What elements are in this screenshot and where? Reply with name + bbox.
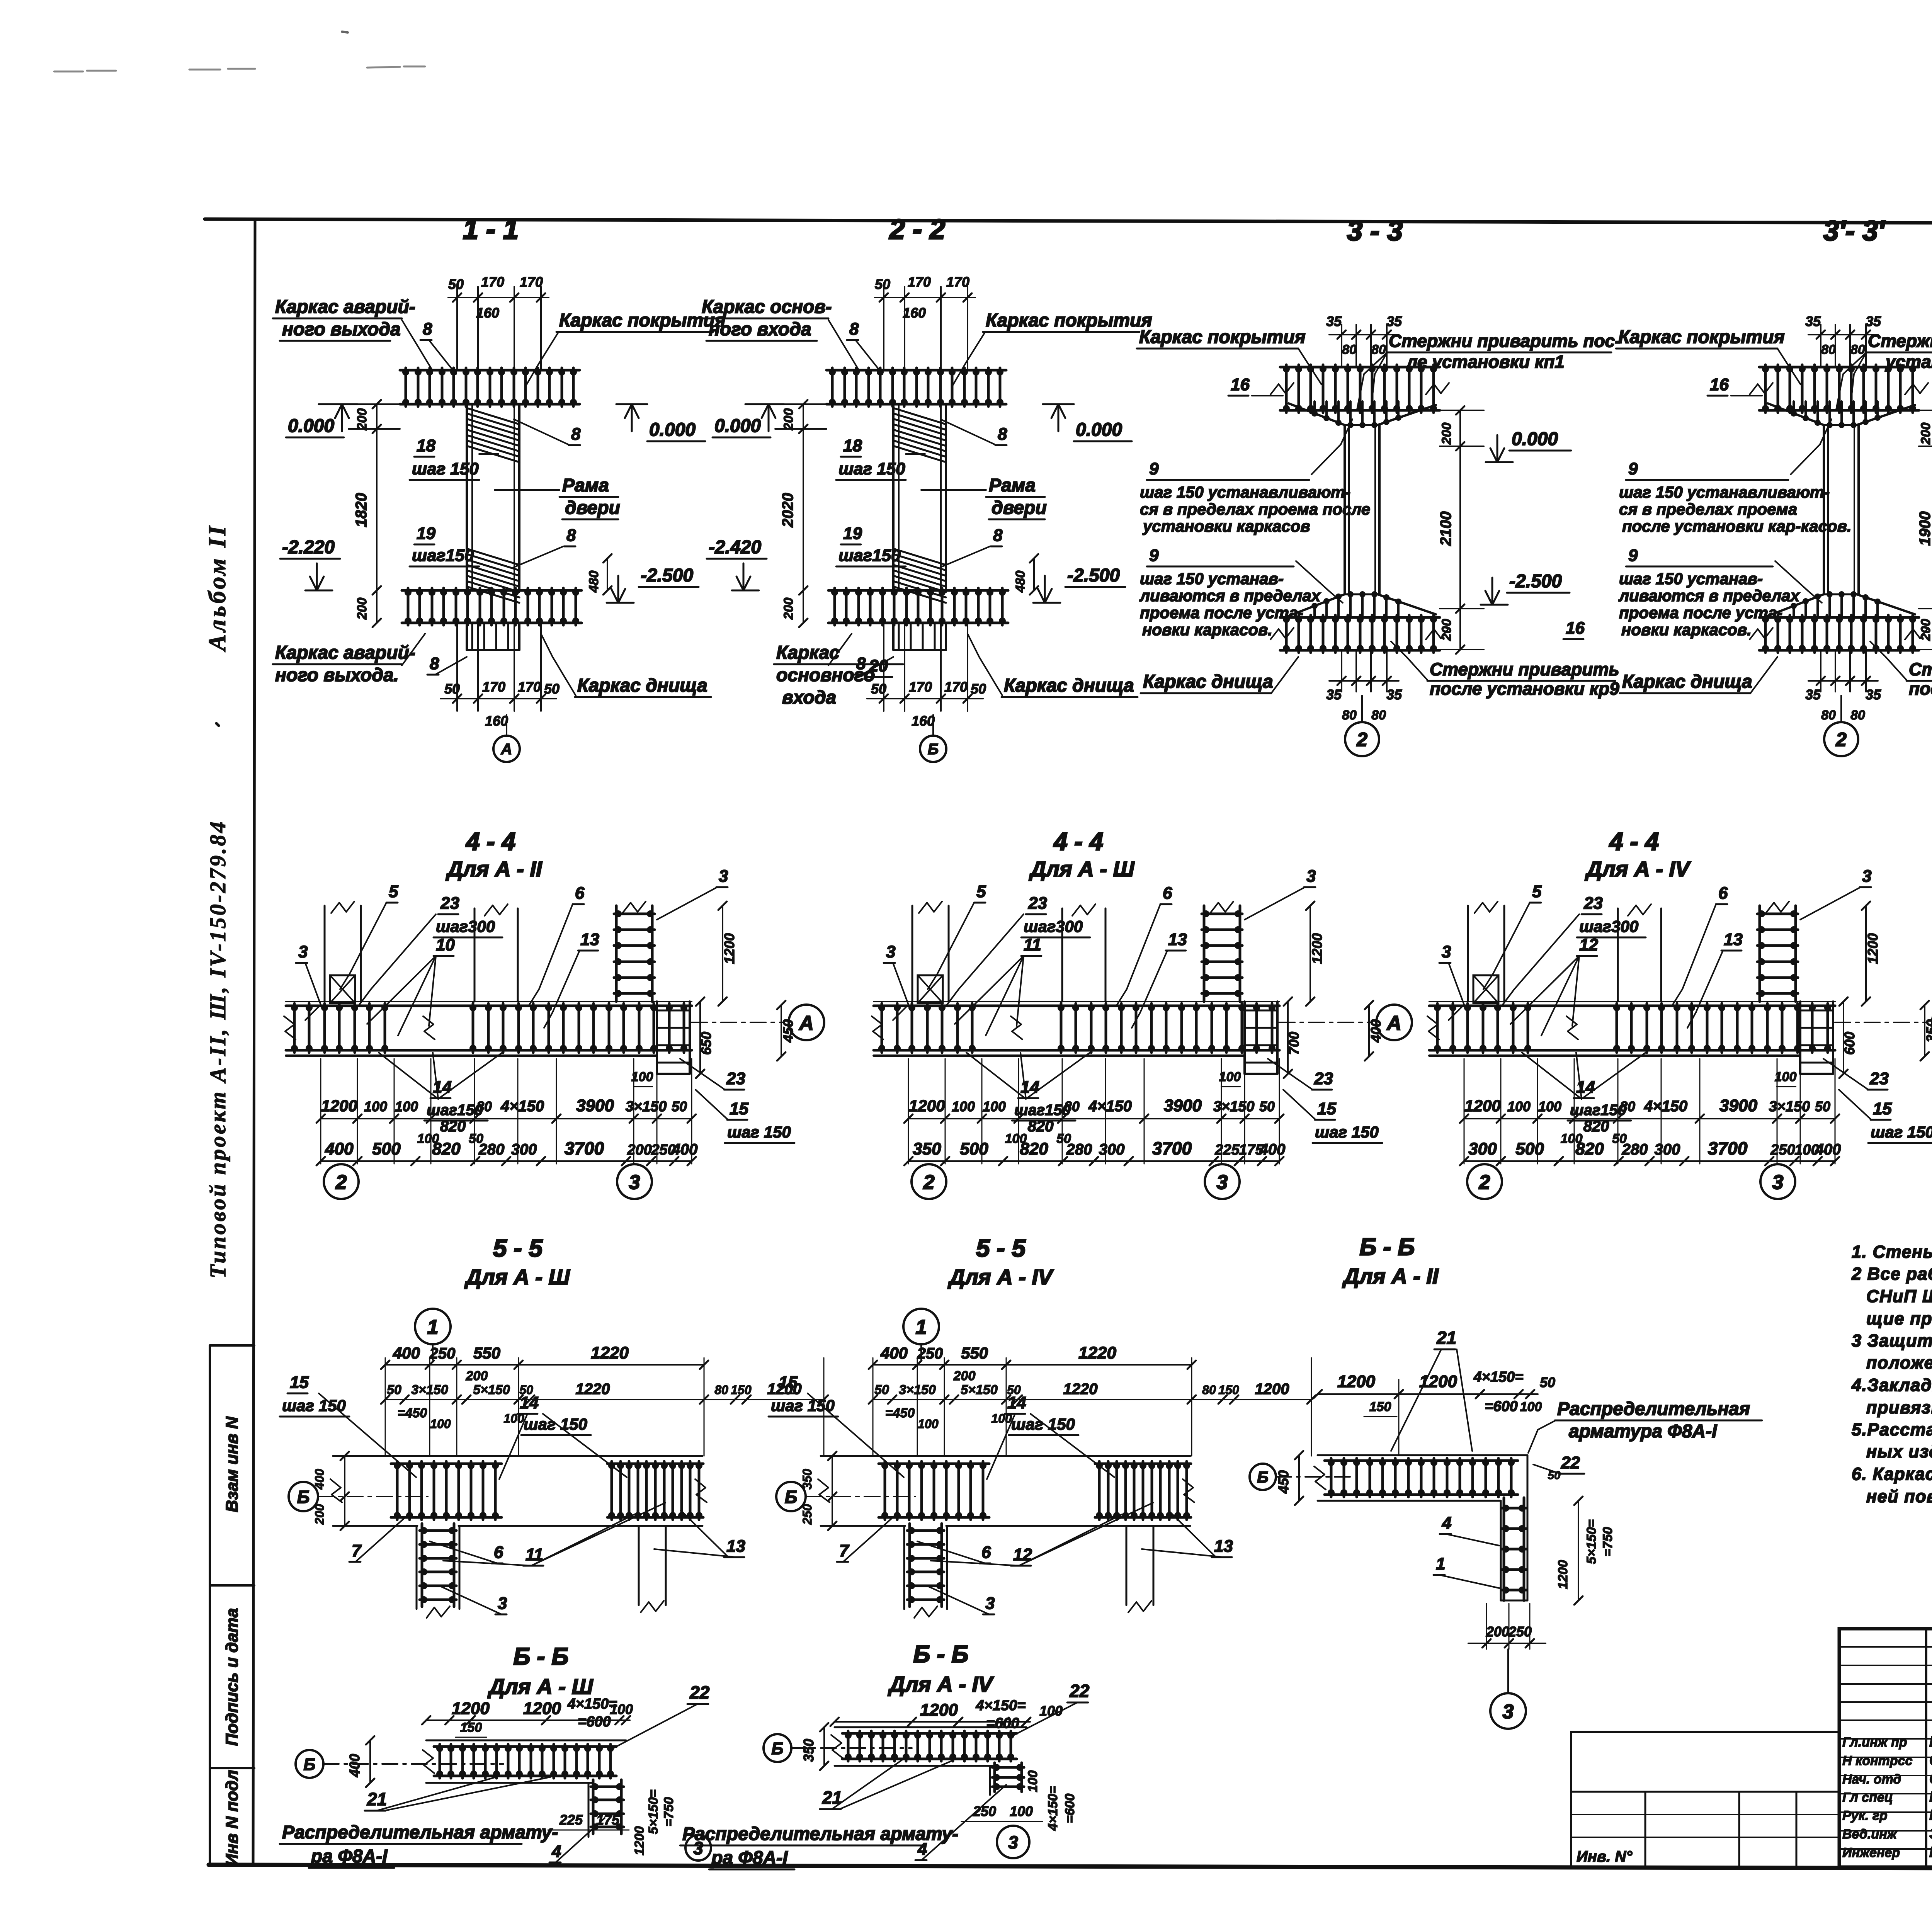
svg-text:400: 400	[880, 1344, 908, 1362]
svg-text:новки каркасов.: новки каркасов.	[1621, 621, 1752, 639]
svg-text:Рама: Рама	[989, 475, 1036, 496]
svg-text:250: 250	[429, 1345, 456, 1362]
svg-text:основного: основного	[776, 665, 875, 685]
svg-text:50: 50	[1540, 1374, 1555, 1390]
svg-text:Стержни приварить: Стержни приварить	[1430, 659, 1619, 679]
svg-text:13: 13	[1724, 930, 1743, 949]
svg-text:1820: 1820	[353, 493, 370, 527]
svg-text:Для А - IV: Для А - IV	[948, 1265, 1054, 1289]
svg-text:250: 250	[917, 1345, 943, 1362]
svg-text:2: 2	[1835, 729, 1847, 750]
svg-text:ных изделий см. КЖ- 2.: ных изделий см. КЖ- 2.	[1866, 1442, 1932, 1461]
svg-text:после установки кар-касов.: после установки кар-касов.	[1622, 517, 1852, 535]
svg-text:150: 150	[731, 1383, 752, 1397]
svg-text:Каркас покрытия: Каркас покрытия	[986, 310, 1152, 331]
svg-text:400: 400	[672, 1141, 698, 1158]
svg-text:280: 280	[1622, 1141, 1648, 1158]
svg-text:Гл.инж пр: Гл.инж пр	[1842, 1735, 1907, 1750]
svg-text:Распределительная: Распределительная	[1557, 1399, 1750, 1419]
svg-text:1900: 1900	[1917, 512, 1932, 546]
svg-text:ливаются в пределах: ливаются в пределах	[1139, 587, 1321, 605]
svg-text:1200: 1200	[721, 933, 737, 964]
svg-text:Б: Б	[297, 1487, 310, 1507]
svg-text:3: 3	[1217, 1171, 1228, 1194]
svg-text:225: 225	[1214, 1142, 1240, 1158]
svg-text:600: 600	[1842, 1032, 1857, 1055]
svg-text:3700: 3700	[1152, 1138, 1192, 1158]
svg-text:Вед.инж: Вед.инж	[1842, 1827, 1898, 1842]
svg-text:=600: =600	[1063, 1794, 1077, 1823]
svg-text:Б: Б	[928, 741, 939, 758]
svg-text:Распределительная армату-: Распределительная армату-	[682, 1824, 958, 1844]
svg-text:5.Расстановку каркасов и спе: 5.Расстановку каркасов и спецификацию см…	[1852, 1420, 1932, 1439]
svg-text:6: 6	[494, 1543, 503, 1562]
svg-text:200: 200	[1486, 1624, 1509, 1639]
svg-text:ного входа: ного входа	[709, 319, 811, 340]
svg-text:1200: 1200	[321, 1097, 357, 1115]
svg-text:1: 1	[916, 1316, 927, 1338]
svg-text:Для А - II: Для А - II	[1342, 1264, 1439, 1288]
svg-text:50: 50	[875, 276, 890, 292]
svg-text:Каркас днища: Каркас днища	[577, 675, 707, 696]
svg-text:10: 10	[436, 935, 455, 954]
svg-text:80: 80	[1342, 342, 1357, 357]
svg-text:шаг150: шаг150	[1570, 1102, 1626, 1119]
svg-text:шаг300: шаг300	[1024, 917, 1083, 935]
svg-text:400: 400	[393, 1344, 420, 1362]
svg-text:4×150: 4×150	[500, 1098, 544, 1115]
svg-text:шаг 150: шаг 150	[1871, 1123, 1932, 1141]
svg-text:3: 3	[985, 1594, 995, 1613]
svg-text:шаг 150 устанав-: шаг 150 устанав-	[1140, 570, 1284, 588]
svg-text:1200: 1200	[1309, 933, 1325, 964]
svg-text:3 Защитный слой бетона до низ: 3 Защитный слой бетона до низа рабочей а…	[1852, 1331, 1932, 1350]
svg-text:18: 18	[843, 436, 862, 455]
svg-text:400: 400	[313, 1469, 327, 1490]
svg-text:после установки кр9: после установки кр9	[1430, 679, 1619, 699]
svg-text:3700: 3700	[565, 1138, 604, 1158]
svg-text:50: 50	[874, 1383, 889, 1397]
svg-text:2100: 2100	[1437, 512, 1454, 546]
svg-text:СНиП Ш-15-76 „Бетонные и желез: СНиП Ш-15-76 „Бетонные и железобетонные …	[1866, 1286, 1932, 1306]
svg-text:шаг 150: шаг 150	[412, 459, 479, 478]
svg-text:100: 100	[1775, 1070, 1797, 1084]
svg-text:3: 3	[1772, 1171, 1784, 1194]
svg-text:80: 80	[714, 1383, 728, 1397]
svg-text:35: 35	[1866, 313, 1881, 329]
svg-text:шаг 150: шаг 150	[1315, 1123, 1379, 1141]
svg-text:35: 35	[1866, 687, 1881, 702]
svg-text:2: 2	[923, 1171, 935, 1194]
svg-text:=450: =450	[398, 1406, 427, 1420]
svg-text:100: 100	[631, 1070, 653, 1084]
svg-text:проема после уста-: проема после уста-	[1140, 604, 1303, 622]
svg-text:550: 550	[961, 1344, 988, 1362]
svg-text:Каркас: Каркас	[776, 643, 840, 663]
svg-text:А: А	[501, 741, 512, 758]
svg-text:3: 3	[1008, 1832, 1018, 1852]
svg-text:3: 3	[1306, 867, 1316, 886]
svg-text:16: 16	[1566, 619, 1585, 638]
svg-text:1: 1	[427, 1316, 439, 1338]
svg-text:3: 3	[498, 1594, 507, 1613]
svg-text:50: 50	[1815, 1099, 1830, 1114]
svg-text:8: 8	[571, 425, 581, 444]
svg-text:2 Все работы по бетонированию: 2 Все работы по бетонированию осуществля…	[1851, 1264, 1932, 1284]
svg-text:Для А - II: Для А - II	[446, 857, 543, 881]
svg-text:400: 400	[325, 1139, 354, 1158]
svg-text:4.Закладные детали и отверст: 4.Закладные детали и отверстия условно н…	[1851, 1375, 1932, 1395]
svg-text:Для А - IV: Для А - IV	[1585, 857, 1692, 881]
svg-text:300: 300	[1655, 1141, 1680, 1158]
svg-text:Б: Б	[785, 1487, 798, 1507]
svg-text:35: 35	[1386, 313, 1402, 329]
svg-text:2020: 2020	[779, 493, 796, 528]
svg-text:установки кп1: установки кп1	[1885, 352, 1932, 372]
svg-text:170: 170	[908, 274, 931, 290]
svg-text:14: 14	[520, 1393, 539, 1412]
svg-text:Нач. отд: Нач. отд	[1842, 1772, 1901, 1787]
svg-text:6. Каркасы поз. 1 и поз. 1: 6. Каркасы поз. 1 и поз. 13 устанавливаю…	[1852, 1464, 1932, 1484]
svg-text:Б - Б: Б - Б	[1360, 1234, 1415, 1260]
svg-text:Рук. гр: Рук. гр	[1842, 1808, 1888, 1823]
svg-text:Одиноков: Одиноков	[1929, 1771, 1932, 1787]
svg-text:350: 350	[913, 1139, 941, 1158]
svg-text:шаг300: шаг300	[1579, 917, 1638, 935]
svg-text:Б - Б: Б - Б	[913, 1641, 969, 1668]
svg-text:4 - 4: 4 - 4	[1053, 828, 1103, 855]
svg-text:8: 8	[993, 526, 1003, 545]
svg-text:5×150=: 5×150=	[646, 1789, 661, 1834]
svg-text:19: 19	[417, 524, 435, 543]
svg-text:1200: 1200	[1865, 933, 1881, 964]
svg-text:6: 6	[981, 1543, 991, 1562]
svg-text:13: 13	[1168, 930, 1187, 949]
svg-text:100: 100	[1010, 1803, 1033, 1819]
svg-text:5 - 5: 5 - 5	[976, 1234, 1026, 1262]
svg-text:Каркас покрытия: Каркас покрытия	[559, 310, 726, 331]
svg-text:170: 170	[518, 679, 541, 695]
svg-text:0.000: 0.000	[649, 420, 696, 440]
svg-text:Каркас аварий-: Каркас аварий-	[275, 643, 415, 663]
svg-text:250: 250	[1508, 1624, 1532, 1639]
svg-text:3: 3	[719, 867, 728, 886]
svg-text:Инженер: Инженер	[1842, 1845, 1900, 1860]
svg-text:175: 175	[596, 1812, 620, 1828]
svg-text:4×150: 4×150	[1644, 1098, 1687, 1115]
svg-text:150: 150	[1218, 1383, 1239, 1397]
svg-text:21: 21	[1436, 1328, 1456, 1348]
svg-text:50: 50	[544, 681, 560, 697]
svg-text:5: 5	[389, 882, 398, 901]
svg-text:80: 80	[1342, 708, 1357, 723]
svg-text:1200: 1200	[632, 1826, 647, 1855]
svg-text:3700: 3700	[1708, 1138, 1748, 1158]
svg-text:Взам инв N: Взам инв N	[223, 1416, 241, 1512]
svg-text:820: 820	[1575, 1139, 1604, 1158]
svg-text:4×150=: 4×150=	[976, 1697, 1026, 1714]
svg-text:Кубышкина: Кубышкина	[1929, 1844, 1932, 1861]
svg-text:300: 300	[1099, 1141, 1125, 1158]
svg-text:3: 3	[886, 942, 895, 961]
svg-text:50: 50	[387, 1383, 401, 1397]
svg-text:9: 9	[1628, 459, 1638, 478]
svg-text:9: 9	[1149, 546, 1159, 565]
svg-text:500: 500	[1515, 1139, 1544, 1158]
svg-text:80: 80	[1202, 1383, 1216, 1397]
svg-text:100: 100	[430, 1417, 451, 1431]
svg-text:6: 6	[575, 884, 585, 903]
svg-text:2: 2	[1356, 729, 1367, 750]
svg-text:-2.500: -2.500	[641, 565, 693, 586]
svg-text:11: 11	[1024, 935, 1041, 954]
svg-text:=600: =600	[986, 1715, 1019, 1731]
svg-text:50: 50	[1548, 1469, 1561, 1482]
svg-text:шаг300: шаг300	[436, 917, 495, 935]
svg-text:8: 8	[849, 320, 859, 338]
svg-text:170: 170	[944, 679, 968, 695]
svg-text:Васильев: Васильев	[1929, 1734, 1932, 1750]
svg-text:300: 300	[1468, 1139, 1497, 1158]
svg-text:установки каркасов: установки каркасов	[1142, 517, 1310, 535]
svg-text:шаг 150: шаг 150	[282, 1396, 346, 1415]
svg-text:-2.500: -2.500	[1067, 565, 1120, 586]
svg-text:шаг 150: шаг 150	[771, 1396, 835, 1415]
svg-text:Для А - Ш: Для А - Ш	[488, 1674, 594, 1699]
svg-text:23: 23	[440, 894, 459, 913]
svg-text:100: 100	[1026, 1770, 1040, 1793]
svg-text:привязку их см. КЖ-12 , КЖ-1: привязку их см. КЖ-12 , КЖ-13.	[1866, 1398, 1932, 1417]
svg-text:ра Ф8А-I: ра Ф8А-I	[711, 1848, 788, 1868]
svg-text:480: 480	[1013, 571, 1028, 593]
svg-text:5 - 5: 5 - 5	[493, 1234, 543, 1262]
svg-text:100: 100	[610, 1701, 633, 1717]
svg-text:Каркас днища: Каркас днища	[1004, 675, 1134, 696]
svg-text:ся в пределах проема: ся в пределах проема	[1619, 500, 1797, 518]
svg-text:0.000: 0.000	[288, 416, 334, 436]
svg-text:15: 15	[1317, 1099, 1336, 1118]
svg-text:после установки КР9: после установки КР9	[1909, 679, 1932, 699]
svg-text:200: 200	[781, 598, 796, 620]
svg-text:160: 160	[476, 305, 499, 321]
svg-text:820: 820	[1020, 1139, 1048, 1158]
svg-text:1200: 1200	[920, 1701, 958, 1719]
svg-text:160: 160	[912, 713, 935, 729]
svg-text:Подпись и дата: Подпись и дата	[223, 1608, 241, 1746]
svg-text:100: 100	[395, 1099, 418, 1114]
svg-text:100: 100	[918, 1417, 939, 1431]
svg-text:1200: 1200	[909, 1097, 945, 1115]
svg-text:23: 23	[1583, 894, 1603, 913]
svg-text:3900: 3900	[1719, 1096, 1757, 1115]
svg-text:Рама: Рама	[562, 475, 609, 496]
svg-text:200: 200	[1439, 619, 1454, 641]
svg-text:шаг 150 устанавливают-: шаг 150 устанавливают-	[1619, 483, 1830, 501]
svg-text:170: 170	[909, 679, 932, 695]
svg-text:1200: 1200	[1464, 1097, 1500, 1115]
svg-text:250: 250	[1770, 1142, 1795, 1158]
svg-text:22: 22	[1561, 1453, 1580, 1472]
svg-text:22: 22	[689, 1682, 710, 1702]
svg-text:20: 20	[869, 656, 888, 675]
svg-text:Распределительная армату-: Распределительная армату-	[282, 1822, 558, 1843]
svg-text:Зубова: Зубова	[1929, 1826, 1932, 1842]
svg-text:200: 200	[1918, 619, 1932, 641]
svg-text:14: 14	[1007, 1393, 1026, 1412]
svg-text:170: 170	[520, 274, 543, 290]
svg-text:35: 35	[1805, 313, 1821, 329]
svg-text:Стержни приварить пос-: Стержни приварить пос-	[1389, 331, 1621, 351]
svg-text:15: 15	[730, 1099, 748, 1118]
svg-text:12: 12	[1579, 935, 1598, 954]
svg-text:двери: двери	[992, 498, 1047, 518]
svg-text:700: 700	[1286, 1032, 1302, 1055]
svg-text:5: 5	[1532, 882, 1542, 901]
svg-text:150: 150	[1369, 1400, 1391, 1414]
svg-text:9: 9	[1628, 546, 1638, 565]
svg-text:35: 35	[1386, 687, 1402, 702]
svg-text:23: 23	[726, 1069, 745, 1088]
svg-text:ра Ф8А-I: ра Ф8А-I	[310, 1846, 388, 1867]
svg-text:3: 3	[1503, 1701, 1514, 1723]
svg-text:4: 4	[1442, 1514, 1451, 1532]
svg-text:ливаются в пределах: ливаются в пределах	[1618, 587, 1800, 605]
svg-text:Б: Б	[1257, 1468, 1269, 1486]
svg-text:Стержни приварить: Стержни приварить	[1909, 659, 1932, 679]
svg-text:200: 200	[466, 1369, 488, 1383]
svg-text:шаг 150 устанав-: шаг 150 устанав-	[1619, 570, 1763, 588]
svg-text:100: 100	[1520, 1400, 1542, 1414]
svg-text:1220: 1220	[1063, 1381, 1098, 1398]
svg-text:13: 13	[726, 1537, 745, 1556]
svg-text:Каркас днища: Каркас днища	[1143, 672, 1273, 692]
svg-text:200: 200	[627, 1142, 651, 1158]
svg-text:3: 3	[629, 1171, 640, 1194]
svg-text:1200: 1200	[1419, 1372, 1457, 1391]
svg-text:2 - 2: 2 - 2	[889, 214, 945, 245]
svg-text:1200: 1200	[523, 1699, 561, 1718]
svg-text:щие правила производства и: щие правила производства и приемки работ…	[1866, 1309, 1932, 1328]
svg-text:шаг 150: шаг 150	[838, 459, 905, 478]
svg-text:А: А	[1386, 1012, 1401, 1034]
svg-text:=600: =600	[1485, 1398, 1518, 1415]
svg-text:Каркас основ-: Каркас основ-	[702, 297, 832, 317]
svg-text:Инв N подл: Инв N подл	[223, 1770, 241, 1866]
svg-text:Типовой проект А-II, Ш, IV-1: Типовой проект А-II, Ш, IV-150-279.84	[205, 820, 230, 1278]
svg-text:Гл спец: Гл спец	[1842, 1790, 1893, 1805]
svg-text:=750: =750	[1600, 1527, 1615, 1557]
svg-text:50: 50	[448, 276, 464, 292]
svg-text:80: 80	[1850, 708, 1865, 723]
svg-text:1220: 1220	[1078, 1344, 1116, 1362]
svg-text:480: 480	[587, 571, 601, 593]
svg-text:200: 200	[781, 408, 796, 431]
svg-text:2: 2	[335, 1171, 347, 1194]
svg-text:Каркас покрытия: Каркас покрытия	[1618, 327, 1785, 347]
svg-text:Силаева: Силаева	[1929, 1752, 1932, 1769]
svg-text:Альбом II: Альбом II	[203, 524, 231, 652]
svg-text:Н контрсс: Н контрсс	[1842, 1753, 1912, 1768]
svg-text:225: 225	[559, 1812, 583, 1828]
svg-text:Для А - Ш: Для А - Ш	[1029, 857, 1135, 881]
svg-text:100: 100	[983, 1099, 1006, 1114]
svg-text:50: 50	[672, 1099, 687, 1114]
svg-text:100: 100	[1507, 1099, 1531, 1114]
svg-text:шаг150: шаг150	[427, 1102, 483, 1119]
svg-text:100: 100	[952, 1099, 975, 1114]
svg-text:15: 15	[779, 1373, 798, 1392]
svg-text:9: 9	[1149, 459, 1159, 478]
svg-text:200: 200	[1918, 423, 1932, 445]
svg-text:ного выхода.: ного выхода.	[275, 665, 399, 685]
svg-text:3900: 3900	[576, 1096, 614, 1115]
svg-text:80: 80	[1371, 708, 1386, 723]
svg-text:1. Стены выполняются из моно: 1. Стены выполняются из монолитного желе…	[1852, 1242, 1932, 1262]
svg-text:13: 13	[580, 930, 599, 949]
svg-text:8: 8	[430, 654, 439, 673]
svg-text:Каркас аварий-: Каркас аварий-	[275, 297, 415, 317]
svg-text:350: 350	[800, 1469, 814, 1490]
svg-text:Васильева: Васильева	[1929, 1807, 1932, 1823]
svg-text:50: 50	[444, 681, 460, 697]
svg-text:6: 6	[1163, 884, 1172, 903]
svg-text:13: 13	[1214, 1537, 1233, 1556]
svg-text:35: 35	[1326, 687, 1342, 702]
svg-text:=600: =600	[578, 1714, 611, 1730]
svg-text:ного выхода: ного выхода	[282, 319, 401, 340]
svg-text:200: 200	[355, 598, 369, 620]
svg-text:80: 80	[1821, 342, 1836, 357]
svg-text:350: 350	[1923, 1019, 1932, 1043]
svg-text:4×150=: 4×150=	[1473, 1369, 1524, 1385]
svg-text:1200: 1200	[1337, 1372, 1375, 1391]
svg-text:двери: двери	[565, 498, 620, 518]
svg-text:Стержни приварить после: Стержни приварить после	[1868, 331, 1932, 351]
svg-text:ся в пределах проема после: ся в пределах проема после	[1140, 500, 1370, 518]
svg-text:50: 50	[971, 681, 986, 697]
svg-text:280: 280	[478, 1141, 505, 1158]
svg-text:А: А	[798, 1012, 814, 1034]
svg-text:арматура Ф8А-I: арматура Ф8А-I	[1569, 1421, 1718, 1442]
svg-text:18: 18	[417, 436, 435, 455]
svg-text:-2.220: -2.220	[282, 537, 335, 558]
svg-text:5: 5	[976, 882, 986, 901]
svg-text:170: 170	[481, 274, 504, 290]
svg-text:160: 160	[903, 305, 926, 321]
svg-text:22: 22	[1069, 1681, 1090, 1701]
svg-text:200: 200	[1439, 423, 1454, 445]
svg-text:1220: 1220	[591, 1344, 629, 1362]
svg-text:400: 400	[1368, 1019, 1384, 1043]
svg-text:5×150=: 5×150=	[1584, 1519, 1599, 1564]
svg-text:1200: 1200	[1556, 1560, 1570, 1589]
svg-text:80: 80	[1821, 708, 1836, 723]
svg-text:3×150: 3×150	[1213, 1099, 1255, 1115]
svg-text:450: 450	[780, 1019, 796, 1043]
svg-text:550: 550	[473, 1344, 500, 1362]
svg-text:входа: входа	[782, 687, 836, 708]
svg-text:450: 450	[1276, 1470, 1291, 1494]
svg-text:350: 350	[801, 1739, 816, 1762]
svg-text:160: 160	[485, 713, 508, 729]
svg-text:новки каркасов.: новки каркасов.	[1142, 621, 1272, 639]
svg-text:3'- 3': 3'- 3'	[1823, 216, 1886, 247]
svg-text:3 - 3: 3 - 3	[1347, 216, 1403, 247]
svg-text:3900: 3900	[1164, 1096, 1202, 1115]
svg-text:шаг150: шаг150	[838, 546, 901, 565]
svg-text:250: 250	[800, 1504, 814, 1525]
svg-text:100: 100	[364, 1099, 387, 1114]
